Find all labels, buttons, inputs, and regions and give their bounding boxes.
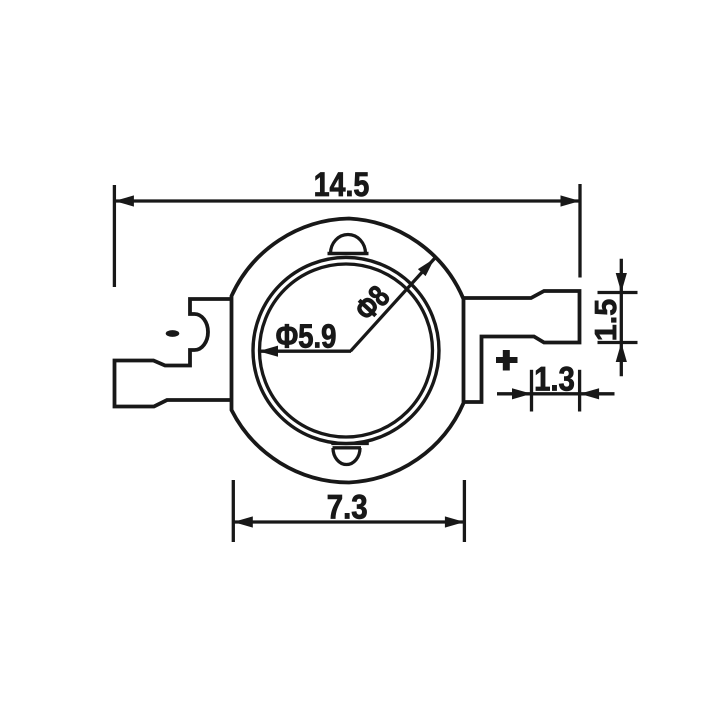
diameter 8 label (rotated) [353, 284, 391, 323]
dim 1.3 right tick [578, 370, 581, 412]
dim 1.5 dimension line [620, 259, 623, 377]
dim 7.3 left arrowhead [233, 516, 253, 527]
right anode lead outline [464, 291, 580, 402]
dim 14.5 left arrowhead [114, 195, 133, 206]
diameter 5.9 arrowhead [259, 346, 279, 357]
dim 7.3 right arrowhead [445, 516, 465, 527]
dim 1.5 label (rotated) [595, 300, 616, 340]
diameter 5.9 leader line [259, 350, 352, 353]
dim 1.3 left arrowhead (points right) [512, 388, 532, 399]
dim 7.3 right tick [463, 480, 466, 542]
dim 1.3 left tick [530, 370, 533, 412]
dim 1.3 dimension line [497, 392, 615, 395]
plus polarity mark horizontal bar [496, 357, 518, 363]
dim 1.5 bottom arrowhead [616, 343, 627, 363]
diameter 8 leader line [351, 259, 435, 352]
left cathode lead outline [115, 299, 232, 407]
diameter 8 arrowhead [418, 259, 435, 277]
dim 1.5 top tick [598, 291, 638, 294]
dim 7.3 label [328, 495, 367, 519]
dim 14.5 left extension line [113, 185, 116, 287]
minus polarity mark [166, 330, 180, 337]
top alignment dome arc [331, 235, 366, 254]
dim 1.5 bottom tick [598, 341, 638, 344]
bottom alignment notch arc [333, 448, 360, 465]
dim 14.5 right arrowhead [561, 195, 581, 206]
dim 14.5 right extension line [578, 184, 581, 278]
dim 1.3 label [536, 367, 574, 391]
dim 7.3 left tick [232, 480, 235, 542]
bottom alignment notch lower chord [333, 446, 362, 449]
dim 1.5 top arrowhead [616, 273, 627, 293]
LED body outer outline [232, 219, 464, 483]
dim 7.3 dimension line [233, 520, 464, 523]
lens flange outer circle [253, 257, 439, 443]
diameter 5.9 label [277, 324, 336, 348]
dim 14.5 dimension line [114, 199, 580, 202]
top alignment dome chord [328, 252, 369, 255]
lens flange inner circle [260, 264, 433, 437]
plus polarity mark vertical bar [503, 350, 510, 371]
dim 14.5 label [316, 172, 369, 196]
bottom alignment notch upper chord [331, 442, 369, 445]
dim 1.3 right arrowhead (points left) [580, 388, 600, 399]
